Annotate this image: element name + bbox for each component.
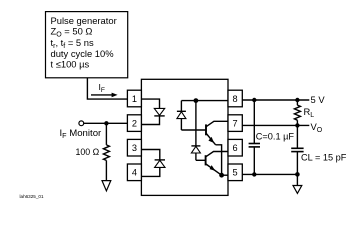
LED D2 (pins 3-4, reversed)	[141, 150, 165, 177]
wire ground rail bottom	[242, 173, 297, 175]
svg-text:IF Monitor: IF Monitor	[60, 128, 103, 140]
svg-text:100 Ω: 100 Ω	[76, 147, 100, 157]
wire IF monitor to pin 2	[84, 122, 128, 124]
pin 2	[127, 115, 141, 132]
capacitor CL plates	[291, 148, 303, 151]
op-amp U1 body (optocoupler IC)	[141, 79, 228, 195]
pin 1	[127, 90, 141, 107]
junction dot internal Vcc	[194, 98, 199, 103]
junction dot CL bottom	[295, 172, 300, 177]
junction dot C top	[252, 98, 256, 102]
pulse generator box	[46, 12, 128, 78]
svg-text:7: 7	[233, 118, 238, 128]
wire Vo rail	[242, 124, 309, 126]
svg-text:Pulse generator: Pulse generator	[51, 15, 117, 26]
transistor Q1	[206, 121, 228, 175]
pin 6	[228, 139, 242, 156]
svg-text:C=0.1 µF: C=0.1 µF	[256, 131, 295, 141]
svg-text:5 V: 5 V	[311, 94, 326, 105]
svg-text:t ≤100 µs: t ≤100 µs	[51, 59, 90, 70]
junction dot emitters to pin 5	[219, 173, 224, 178]
svg-text:1: 1	[132, 94, 137, 104]
wire resistor to ground	[105, 160, 107, 180]
svg-text:4: 4	[132, 168, 137, 178]
transistor Q2	[206, 152, 228, 176]
photodiode PD2	[191, 101, 200, 161]
svg-text:8: 8	[233, 94, 238, 104]
capacitor C plates	[249, 144, 260, 147]
svg-text:2: 2	[132, 118, 137, 128]
pin 3	[127, 139, 141, 156]
svg-text:CL = 15 pF: CL = 15 pF	[301, 153, 347, 163]
wire dot to resistor	[105, 123, 107, 145]
resistor 100 ohm	[103, 145, 109, 161]
capacitor CL branch wires	[296, 125, 298, 148]
pin 4	[127, 164, 141, 181]
junction dot RL top	[295, 98, 299, 102]
svg-text:3: 3	[132, 143, 137, 153]
wire PD1 to Q1 base	[181, 129, 206, 131]
junction dot pin2 wire	[104, 121, 108, 125]
photodiode PD1	[177, 101, 186, 130]
svg-text:duty cycle 10%: duty cycle 10%	[51, 48, 114, 59]
current arrow IF	[91, 82, 118, 97]
node IF monitor terminal	[79, 121, 84, 126]
LED D1 (pins 1-2)	[141, 99, 164, 124]
pin 8	[228, 90, 242, 107]
pin 5	[228, 164, 242, 181]
junction dot C bottom	[252, 172, 256, 176]
svg-text:6: 6	[233, 143, 238, 153]
wire PD2 to Q2 base	[196, 159, 206, 161]
wire pin 8 internal rail	[181, 100, 228, 102]
resistor RL	[294, 100, 300, 125]
svg-text:lah6325_01: lah6325_01	[20, 194, 44, 199]
svg-text:5: 5	[233, 168, 238, 178]
ground right	[293, 186, 302, 194]
wire to right ground	[296, 174, 298, 185]
wire dot to pin 5	[222, 174, 228, 176]
junction dot Vo	[295, 123, 299, 127]
capacitor C branch wires	[253, 100, 255, 143]
pin 7	[228, 115, 242, 132]
wire pulse generator to pin 1	[87, 78, 127, 99]
wire 5V rail	[242, 99, 309, 101]
ground left	[102, 181, 111, 191]
